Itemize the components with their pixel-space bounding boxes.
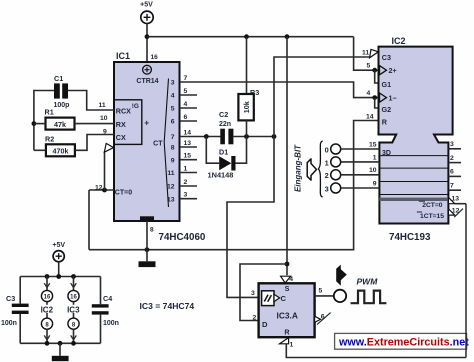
svg-text:3: 3 — [325, 184, 329, 193]
IC3.A R inversion wedge — [280, 338, 289, 344]
svg-text:CX: CX — [116, 133, 126, 142]
arrow IC3 supply current down — [71, 283, 77, 287]
svg-text:G2: G2 — [382, 105, 392, 114]
svg-text:8: 8 — [150, 227, 154, 234]
node IC3 pin 8 circle — [68, 318, 79, 329]
svg-text:!G: !G — [132, 103, 139, 110]
wire branch to D input — [240, 264, 287, 321]
ground symbol decoupling — [52, 356, 69, 361]
wire FF reset to IC2 borrow — [286, 344, 466, 358]
svg-text:22n: 22n — [219, 121, 231, 128]
wire 2+ node down to G1 — [375, 70, 379, 83]
svg-text:CT: CT — [153, 140, 163, 147]
label IC3 supply — [66, 305, 83, 315]
arrow IC2 supply current down — [44, 283, 50, 287]
svg-text:100n: 100n — [103, 320, 119, 327]
wire IC3 supply column mid — [73, 302, 75, 319]
svg-text:100n: 100n — [1, 320, 17, 327]
label IC2 supply — [39, 305, 56, 315]
svg-text:6: 6 — [171, 119, 175, 126]
wire ground stub — [59, 343, 61, 356]
node junction +5V rail at x147 — [145, 34, 150, 39]
resistor R1 47k — [46, 118, 75, 130]
svg-text:5: 5 — [367, 62, 371, 69]
svg-text:47k: 47k — [54, 120, 66, 129]
wire C4 bottom lead — [100, 315, 102, 344]
IC2 output pin 7 stub — [448, 182, 461, 190]
svg-text:C1: C1 — [54, 74, 63, 83]
svg-text:R1: R1 — [45, 108, 54, 117]
node IC3 pin 16 circle — [68, 290, 79, 301]
IC1 pin 14 (CT7) stub and labels — [171, 129, 192, 141]
svg-text:7: 7 — [450, 182, 454, 189]
node input connector bit 3 — [325, 183, 341, 193]
svg-text:1: 1 — [290, 341, 294, 348]
node junction S/D split — [285, 262, 290, 267]
svg-text:11: 11 — [99, 102, 106, 109]
wire pin 13 to right edge — [455, 203, 466, 205]
svg-text:2: 2 — [325, 171, 329, 180]
svg-text:470k: 470k — [53, 147, 69, 156]
wire input bit 1 to IC2 pin 1 — [341, 161, 380, 163]
IC1 pin 13 (CT8) stub and labels — [171, 140, 197, 152]
wire pin12 down to ground rail — [88, 190, 90, 250]
svg-text:2: 2 — [184, 179, 188, 186]
svg-text:11: 11 — [362, 49, 369, 56]
svg-text:15: 15 — [369, 141, 377, 148]
svg-text:4: 4 — [367, 90, 371, 97]
svg-text:Eingang-BIT: Eingang-BIT — [293, 144, 302, 192]
IC3.A dynamic clock triangle — [274, 294, 280, 301]
arrow IC2 supply into ground — [44, 335, 50, 339]
node junction R3 top at +5V rail — [244, 34, 249, 39]
wire R1 left lead — [34, 123, 46, 125]
svg-text:10k: 10k — [242, 101, 251, 113]
node junction rail at +5V — [56, 274, 61, 279]
svg-text:RCX: RCX — [116, 107, 131, 116]
svg-text:7: 7 — [184, 75, 188, 82]
IC1 pin 1 (CT11) stub and labels — [167, 165, 197, 177]
svg-text:IC3.A: IC3.A — [277, 311, 298, 321]
wire C3 bottom lead — [19, 314, 21, 343]
wire D1 branch down-left — [206, 137, 219, 164]
wire +5V down to flip-flop — [286, 37, 288, 276]
svg-text:5: 5 — [171, 106, 175, 113]
wire ground rail — [89, 121, 379, 250]
IC2 2CT=0 label — [419, 201, 443, 209]
svg-text:+5V: +5V — [140, 2, 153, 9]
svg-text:12: 12 — [167, 184, 175, 191]
wire IC2 supply column bottom — [46, 329, 48, 343]
svg-text:D1: D1 — [219, 147, 228, 156]
svg-text:3: 3 — [184, 192, 188, 199]
wire decoupling bottom rail — [20, 342, 100, 344]
svg-text:R: R — [382, 117, 388, 126]
IC3.A S inversion wedge — [281, 276, 291, 283]
wire input bit 0 to IC2 pin 15 — [341, 148, 380, 150]
diode D1 — [219, 156, 231, 170]
svg-text:74HC4060: 74HC4060 — [159, 232, 206, 243]
wire R1 right to RX pin 10 — [75, 123, 115, 125]
node input connector bit 0 — [325, 144, 341, 154]
svg-text:1: 1 — [373, 154, 377, 161]
arrow into IC2 C3 input — [370, 49, 379, 57]
resistor R2 470k — [46, 144, 75, 156]
IC1 oscillator sub-block box — [114, 100, 142, 145]
svg-text:C2: C2 — [219, 110, 228, 119]
op IC2 74HC193 body — [379, 47, 453, 224]
node junction bottom rail center — [58, 341, 63, 346]
wire +5V rail drop to IC2 2+ input — [354, 37, 379, 70]
wire +5V to decoupling rail — [58, 262, 60, 277]
svg-text:5: 5 — [319, 288, 323, 295]
capacitor C2 plates — [220, 129, 225, 145]
wire R3 bottom lead — [246, 120, 248, 136]
IC3.A edge symbol box — [262, 291, 274, 306]
IC1 pin 6 (CT6) stub and labels — [171, 114, 197, 126]
wire input bit 2 to IC2 pin 10 — [341, 174, 380, 176]
IC1 pin 8 bar marker — [140, 216, 154, 221]
node input connector bit 2 — [325, 170, 341, 180]
svg-text:www.ExtremeCircuits.net: www.ExtremeCircuits.net — [338, 337, 469, 349]
wire R2 right to CX pin 9 — [75, 135, 114, 151]
wire R3 top lead — [246, 37, 248, 94]
wire IC2 supply column mid — [46, 302, 48, 319]
node junction R1 left — [32, 121, 37, 126]
svg-text:16: 16 — [44, 295, 51, 301]
node junction IC1 pin8 at rail — [145, 247, 150, 252]
ground symbol under IC1 — [139, 261, 156, 267]
svg-text:13: 13 — [452, 195, 460, 202]
arrow IC3 supply into ground — [71, 335, 77, 339]
node junction R3 bottom — [244, 134, 249, 139]
wire IC3 supply column top — [73, 277, 75, 291]
IC2 pin 12 carry output wedge — [448, 209, 454, 215]
wire IC3 supply column bottom — [73, 329, 75, 343]
svg-text:C: C — [281, 294, 287, 303]
svg-text:S: S — [285, 284, 290, 293]
IC2 thick separator band — [379, 198, 448, 201]
arrow PWM pointer — [336, 265, 347, 286]
IC1 pin 15 (CT9) stub and labels — [171, 153, 197, 165]
svg-text:+5V: +5V — [52, 242, 65, 249]
IC1 pin 5 (CT4) stub and labels — [171, 88, 197, 100]
node input connector bit 1 — [325, 157, 341, 167]
svg-text:10: 10 — [369, 167, 377, 174]
IC2 1CT=15 label — [417, 212, 444, 220]
wire 1- node down to G2 — [375, 98, 379, 108]
svg-text:14: 14 — [184, 129, 192, 136]
node junction pin12 wire — [102, 188, 107, 193]
svg-text:1N4148: 1N4148 — [208, 170, 234, 179]
waveform PWM square wave — [351, 291, 387, 304]
wire IC2 supply column top — [46, 277, 48, 291]
wire C4 top lead — [100, 277, 102, 305]
svg-text:1CT=15: 1CT=15 — [420, 213, 444, 220]
label www.ExtremeCircuits.net box — [335, 333, 470, 349]
svg-text:R: R — [284, 328, 290, 337]
svg-text:CT=0: CT=0 — [115, 190, 132, 197]
svg-text:G1: G1 — [382, 80, 392, 89]
svg-text:C3: C3 — [382, 53, 391, 62]
svg-text:3: 3 — [251, 290, 255, 297]
wire osc node down to FF clock — [227, 137, 274, 298]
IC1 CTR14 power symbol — [143, 65, 152, 74]
svg-text:5: 5 — [184, 88, 188, 95]
svg-text:2CT=0: 2CT=0 — [422, 202, 443, 209]
svg-text:14: 14 — [366, 113, 374, 120]
svg-text:16: 16 — [70, 295, 77, 301]
svg-text:6: 6 — [184, 114, 188, 121]
svg-text:PWM: PWM — [357, 276, 379, 286]
svg-text:0: 0 — [325, 145, 329, 154]
wire C2 right to node — [233, 136, 274, 138]
wire osc node up to IC2 C3 — [274, 57, 370, 137]
IC1 pin 2 (CT12) stub and labels — [167, 179, 197, 191]
svg-text:10: 10 — [100, 115, 108, 122]
svg-text:R2: R2 — [45, 134, 54, 143]
op IC1 74HC4060 body — [114, 62, 180, 221]
IC1 pin 7 (CT3) stub and labels — [171, 75, 188, 87]
svg-text:2+: 2+ — [389, 66, 397, 75]
wire IC1 pin14 to C2 — [180, 136, 221, 138]
svg-text:1: 1 — [325, 158, 329, 167]
svg-text:8: 8 — [171, 145, 175, 152]
svg-text:C4: C4 — [103, 294, 112, 303]
capacitor C3 plates — [12, 304, 29, 307]
svg-text:CTR14: CTR14 — [136, 78, 158, 85]
wire +5V top rail to IC2 side — [147, 36, 354, 38]
IC2 1- dynamic input triangle — [380, 93, 387, 102]
wire pin 12 CT=0 — [89, 189, 114, 191]
svg-text:3: 3 — [171, 80, 175, 87]
svg-text:16: 16 — [151, 54, 159, 61]
wire C1 left to vertical — [34, 91, 54, 151]
svg-text:7: 7 — [171, 134, 175, 141]
node junction rail IC3 col — [71, 274, 76, 279]
svg-text:3D: 3D — [382, 150, 391, 157]
svg-text:C3: C3 — [6, 294, 15, 303]
svg-text:IC3: IC3 — [67, 305, 80, 314]
wire decoupling top rail — [20, 276, 100, 278]
IC1 pin 3 (CT13) stub and labels — [167, 192, 197, 204]
svg-text:+: + — [144, 118, 149, 127]
node junction D1 branch left — [204, 134, 209, 139]
wire pin12 up to reset arrow — [104, 152, 106, 191]
node PWM output connector — [334, 290, 346, 302]
IC2 pin 13 borrow output wedge — [448, 197, 454, 203]
svg-text:IC2: IC2 — [392, 36, 406, 46]
arrow internal reset into IC1 — [104, 143, 113, 152]
svg-text:D: D — [262, 320, 268, 329]
IC2 output pin 6 stub — [448, 169, 461, 177]
wire input bit 3 to IC2 pin 9 — [341, 187, 380, 189]
IC1 pin 4 (CT5) stub and labels — [171, 101, 197, 113]
arrow Eingang-BIT pointer — [307, 159, 316, 180]
svg-text:IC2: IC2 — [41, 305, 54, 314]
wire C3 top lead — [19, 277, 21, 304]
wire FF Q output to PWM connector — [315, 295, 334, 297]
node junction +5V drop x287 — [285, 34, 290, 39]
wire IC1 pin 8 to rail — [146, 221, 148, 261]
svg-text:3: 3 — [450, 141, 454, 148]
IC2 2+ dynamic input triangle — [380, 66, 387, 75]
IC2 output pin 2 stub — [448, 155, 461, 163]
capacitor C1 plates — [54, 83, 60, 98]
brace input bits — [318, 141, 322, 197]
svg-text:R3: R3 — [250, 88, 259, 97]
node IC2 pin 16 circle — [41, 290, 52, 301]
IC3.A pin 6 no-connect stub — [317, 313, 331, 325]
node junction bottom rail IC3 col — [71, 341, 76, 346]
svg-text:6: 6 — [450, 169, 454, 176]
svg-text:IC3 = 74HC74: IC3 = 74HC74 — [140, 301, 195, 311]
resistor R3 10k — [238, 94, 253, 120]
svg-text:15: 15 — [184, 153, 192, 160]
power +5V bottom supply symbol — [52, 242, 65, 262]
svg-text:4: 4 — [171, 93, 175, 100]
IC3.A pin 6 inversion wedge — [315, 316, 321, 322]
capacitor C4 plates — [92, 304, 109, 307]
power +5V top supply symbol — [140, 2, 153, 24]
wire IC1 pin7 to IC2 1- clock — [180, 82, 379, 98]
IC2 register row dividers — [379, 156, 448, 195]
svg-text:13: 13 — [167, 196, 175, 203]
svg-text:74HC193: 74HC193 — [389, 232, 431, 243]
node junction rail IC2 col — [45, 274, 50, 279]
svg-text:9: 9 — [373, 180, 377, 187]
svg-text:9: 9 — [171, 157, 175, 164]
svg-text:RX: RX — [116, 120, 126, 129]
node junction osc node to IC2 — [272, 134, 277, 139]
wire R2 left lead — [34, 149, 46, 151]
node junction at 2+ pin — [372, 68, 377, 73]
svg-text:1: 1 — [184, 165, 188, 172]
wire pin 12 no-connect stub — [454, 209, 463, 218]
wire C1 right to RCX pin 11 — [68, 91, 114, 111]
svg-text:100p: 100p — [54, 102, 70, 109]
IC1 CT output brace — [164, 79, 168, 208]
svg-text:6: 6 — [321, 313, 325, 320]
svg-text:2: 2 — [450, 155, 454, 162]
IC3.A edge symbol slashes — [264, 295, 271, 302]
op IC3.A flip-flop body — [259, 283, 315, 337]
node IC2 pin 8 circle — [41, 318, 52, 329]
node junction bottom rail IC2 col — [45, 341, 50, 346]
wire D1 branch right-up — [236, 137, 247, 164]
svg-text:4: 4 — [184, 101, 188, 108]
IC2 output pin 3 stub — [448, 141, 461, 149]
svg-text:IC1: IC1 — [116, 51, 130, 61]
wire pin 13 down right edge — [465, 204, 467, 358]
svg-text:1−: 1− — [389, 94, 397, 103]
svg-text:2: 2 — [253, 315, 257, 322]
svg-text:13: 13 — [184, 140, 192, 147]
node junction at 1- pin — [372, 95, 377, 100]
svg-text:4: 4 — [289, 276, 293, 283]
wire +5V circle down to IC1 pin16 — [146, 24, 148, 63]
svg-text:11: 11 — [167, 170, 174, 177]
